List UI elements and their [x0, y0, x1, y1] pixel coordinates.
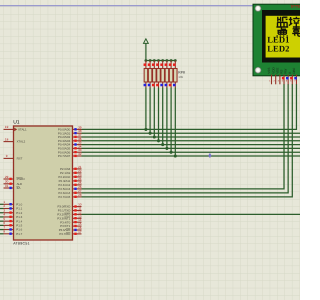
wire P1.4 off-sheet [0, 220, 4, 222]
wire resistor bus bar [146, 60, 175, 62]
pin P0.7/AD7 [73, 155, 82, 157]
LCD bezel [262, 10, 304, 63]
node marker [208, 153, 211, 158]
pin PSEN [4, 178, 14, 180]
resistor R8 of pack RP8 [174, 61, 178, 88]
pin marker resistor top [144, 63, 147, 65]
junction node P0.5 [165, 147, 168, 150]
svg-text:XTAL1: XTAL1 [18, 128, 27, 132]
pin LCD DB0 [292, 68, 297, 85]
wire RP8 pin 5 down to P0.4 [162, 88, 164, 145]
svg-text:ST7920: ST7920 [291, 5, 300, 9]
pin P2.1/A9 [73, 172, 82, 174]
wire P0.3 bus [82, 140, 301, 142]
svg-text:10k: 10k [178, 75, 183, 79]
junction node P0.3 [157, 139, 160, 142]
pin marker resistor bottom [148, 84, 151, 87]
pin RST [4, 157, 14, 159]
LCD text 点 [277, 27, 288, 36]
pin marker resistor top [169, 63, 172, 65]
resistor R5 of pack RP8 [161, 61, 165, 88]
pin P2.7/A15 [73, 196, 82, 198]
junction bus bar col 7 [170, 59, 173, 62]
pin marker resistor bottom [165, 84, 168, 87]
wire RP8 pin 8 down to P0.7 [174, 88, 176, 157]
pin P0.0/AD0 [73, 128, 82, 130]
junction node P0.0 [144, 128, 147, 131]
wire P0.2 bus [82, 136, 301, 138]
wire P1.7 off-sheet [0, 233, 4, 235]
LCD screen [266, 16, 304, 58]
svg-text:9: 9 [6, 154, 8, 158]
pin P2.3/A11 [73, 180, 82, 182]
svg-text:19: 19 [5, 125, 9, 129]
pin P1.4 [4, 220, 14, 222]
svg-text:RST: RST [17, 157, 23, 161]
LCD text 控 [289, 17, 300, 27]
microcontroller U1 AT89C51 body [14, 126, 73, 240]
pin marker resistor bottom [152, 84, 155, 87]
wire P1.1 off-sheet [0, 208, 4, 210]
wire P0.0 to LCD DB0 [82, 84, 297, 129]
resistor R1 of pack RP8 [144, 61, 148, 88]
wire P2.5 to LCD RS [82, 84, 285, 189]
pin P3.3/INT1 [73, 217, 82, 219]
junction bus bar col 3 [153, 59, 156, 62]
junction bus bar col 8 [174, 59, 177, 62]
pin LCD VDD [271, 67, 275, 85]
pin P1.2 [4, 211, 14, 213]
wire RP8 pin 4 down to P0.3 [158, 88, 160, 141]
pin P3.5/T1 [73, 225, 82, 227]
junction bus bar col 2 [149, 59, 152, 62]
svg-text:17: 17 [78, 230, 82, 234]
resistor R3 of pack RP8 [153, 61, 157, 88]
svg-text:28: 28 [78, 193, 82, 197]
resistor R7 of pack RP8 [169, 61, 173, 88]
mounting hole bottom [255, 67, 261, 73]
pin P1.6 [4, 228, 14, 230]
pin LCD E [288, 72, 293, 85]
mounting hole top [255, 5, 261, 11]
junction node P0.4 [161, 143, 164, 146]
LCD text 监 [276, 17, 288, 27]
pin P1.5 [4, 224, 14, 226]
pin P3.4/T0 [73, 221, 82, 223]
pin P3.6/WR [73, 229, 82, 231]
svg-text:32: 32 [78, 152, 82, 156]
svg-text:AT89C51: AT89C51 [13, 241, 30, 245]
pin EA [4, 187, 14, 189]
resistor R4 of pack RP8 [157, 61, 161, 88]
wire P1.2 off-sheet [0, 212, 4, 214]
pin marker resistor top [156, 63, 159, 65]
resistor R6 of pack RP8 [165, 61, 169, 88]
pin P0.6/AD6 [73, 151, 82, 153]
svg-text:DB0: DB0 [292, 68, 296, 74]
pin P2.6/A14 [73, 192, 82, 194]
pin P1.7 [4, 233, 14, 235]
svg-text:18: 18 [5, 137, 9, 141]
pin LCD VEE [276, 68, 280, 85]
pin P2.5/A13 [73, 188, 82, 190]
wire P2.6 to LCD RW [82, 84, 289, 193]
sheet border line [0, 5, 300, 7]
pin marker resistor top [165, 63, 168, 65]
wire P1.6 off-sheet [0, 229, 4, 231]
wire P1.3 off-sheet [0, 216, 4, 218]
svg-text:31: 31 [5, 184, 9, 188]
svg-text:P2.7/A15: P2.7/A15 [58, 195, 70, 199]
pin P0.2/AD2 [73, 136, 82, 138]
pin LCD RW [284, 69, 289, 85]
resistor R2 of pack RP8 [148, 61, 152, 88]
svg-text:RP8: RP8 [178, 70, 185, 74]
junction bus bar col 6 [166, 59, 169, 62]
pin P2.0/A8 [73, 168, 82, 170]
pin P2.4/A12 [73, 184, 82, 186]
junction node P0.2 [153, 135, 156, 138]
wire P0.7 bus [82, 155, 301, 157]
pin label XTAL1 [14, 128, 17, 132]
pin marker resistor top [160, 63, 163, 65]
wire P0.1 bus [82, 132, 301, 134]
svg-text:29: 29 [5, 175, 9, 179]
wire RP8 pin 2 down to P0.1 [149, 88, 151, 134]
pin P1.3 [4, 216, 14, 218]
wire P3.2/INT0 [82, 213, 301, 215]
pin marker resistor bottom [173, 84, 176, 87]
wire P1.5 off-sheet [0, 224, 4, 226]
junction bus bar col 4 [157, 59, 160, 62]
pin XTAL2 [4, 141, 14, 143]
pin marker resistor top [152, 63, 155, 65]
wire P0.5 bus [82, 147, 301, 149]
pin LCD RS [280, 69, 285, 84]
junction bus bar col 1 [145, 59, 148, 62]
pin marker resistor bottom [169, 84, 172, 87]
junction node P0.7 [174, 154, 177, 157]
pin P1.1 [4, 207, 14, 209]
pin P0.4/AD4 [73, 143, 82, 145]
svg-text:XTAL2: XTAL2 [17, 140, 26, 144]
pin marker resistor bottom [156, 84, 159, 87]
svg-text:P1.7: P1.7 [16, 232, 22, 236]
wire RP8 pin 7 down to P0.6 [170, 88, 172, 153]
pin marker resistor bottom [144, 84, 147, 87]
svg-text:8: 8 [3, 230, 5, 234]
wire P1.0 off-sheet [0, 203, 4, 205]
pin XTAL1 [4, 128, 14, 130]
wire RP8 pin 1 down to P0.0 [145, 88, 147, 130]
pin P0.3/AD3 [73, 140, 82, 142]
junction bus bar col 5 [161, 59, 164, 62]
wire P0.4 bus [82, 144, 301, 146]
pin P2.2/A10 [73, 176, 82, 178]
pin P0.1/AD1 [73, 132, 82, 134]
wire RP8 pin 3 down to P0.2 [153, 88, 155, 138]
power VCC [144, 39, 149, 61]
pin P1.0 [4, 203, 14, 205]
junction node P0.6 [170, 151, 173, 154]
svg-text:P0.7/AD7: P0.7/AD7 [58, 154, 71, 158]
pin P3.0/RXD [73, 205, 82, 207]
pin marker resistor bottom [160, 84, 163, 87]
LCD module LCD1 (ST7920 128x64) [253, 4, 304, 76]
pin P3.1/TXD [73, 209, 82, 211]
pin ALE [4, 183, 14, 185]
junction node P0.1 [149, 132, 152, 135]
pin P3.7/RD [73, 233, 82, 235]
wire RP8 pin 6 down to P0.5 [166, 88, 168, 149]
wire P2.7 to LCD E [82, 84, 293, 197]
pin P0.5/AD5 [73, 147, 82, 149]
wire P0.6 bus [82, 151, 301, 153]
LCD text 亮 [292, 27, 300, 36]
svg-text:U1: U1 [13, 119, 20, 125]
svg-text:LED2: LED2 [267, 44, 290, 54]
pin marker resistor top [173, 63, 176, 65]
pin P3.2/INT0 [73, 213, 82, 215]
pin LCD VSS [267, 68, 271, 85]
pin marker resistor top [148, 63, 151, 65]
